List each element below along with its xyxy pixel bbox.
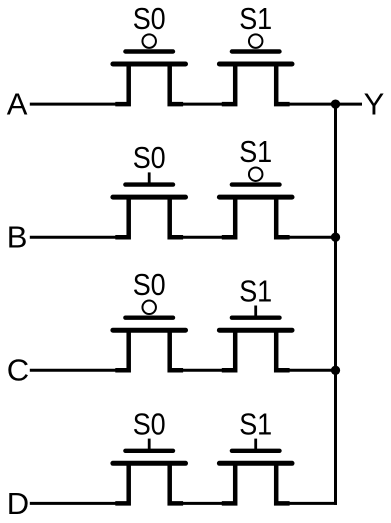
junction dot row A / bus	[331, 99, 340, 108]
transistor M6 (S1-controlled pass transistor)	[219, 306, 292, 371]
wire C input to C-row S0 transistor	[30, 369, 116, 372]
svg-text:S0: S0	[133, 267, 166, 302]
transistor M3 (S0-controlled pass transistor)	[113, 172, 186, 237]
transistor M5 (S0-controlled pass transistor)	[113, 301, 186, 371]
svg-text:Y: Y	[364, 87, 385, 122]
svg-text:S0: S0	[133, 406, 166, 441]
wire B input to B-row S0 transistor	[30, 236, 116, 239]
wire D input to D-row S0 transistor	[30, 502, 116, 505]
wire between row-A transistors	[183, 103, 223, 106]
transistor M7 (S0-controlled pass transistor)	[113, 439, 186, 504]
svg-text:S1: S1	[239, 134, 272, 169]
transistor M1 (S0-controlled pass transistor)	[113, 34, 186, 104]
wire row A to output bus	[289, 103, 337, 106]
svg-text:S1: S1	[239, 1, 272, 36]
junction dot row B / bus	[331, 233, 340, 242]
wire row C to output bus	[289, 369, 337, 372]
wire bus to Y output	[336, 103, 363, 106]
svg-text:S1: S1	[239, 273, 272, 308]
wire between row-D transistors	[183, 502, 223, 505]
wire row D to output bus	[289, 502, 337, 505]
wire row B to output bus	[289, 236, 337, 239]
wire between row-C transistors	[183, 369, 223, 372]
svg-text:S0: S0	[133, 1, 166, 36]
svg-text:S1: S1	[239, 406, 272, 441]
svg-text:B: B	[7, 220, 28, 255]
svg-text:A: A	[7, 87, 28, 122]
svg-text:S0: S0	[133, 140, 166, 175]
transistor M4 (S1-controlled pass transistor)	[219, 167, 292, 237]
svg-text:D: D	[7, 486, 29, 521]
wire output bus (vertical)	[334, 104, 337, 505]
transistor M8 (S1-controlled pass transistor)	[219, 439, 292, 504]
wire between row-B transistors	[183, 236, 223, 239]
svg-text:C: C	[7, 353, 29, 388]
wire A input to A-row S0 transistor	[30, 103, 116, 106]
transistor M2 (S1-controlled pass transistor)	[219, 34, 292, 104]
junction dot row C / bus	[331, 366, 340, 375]
